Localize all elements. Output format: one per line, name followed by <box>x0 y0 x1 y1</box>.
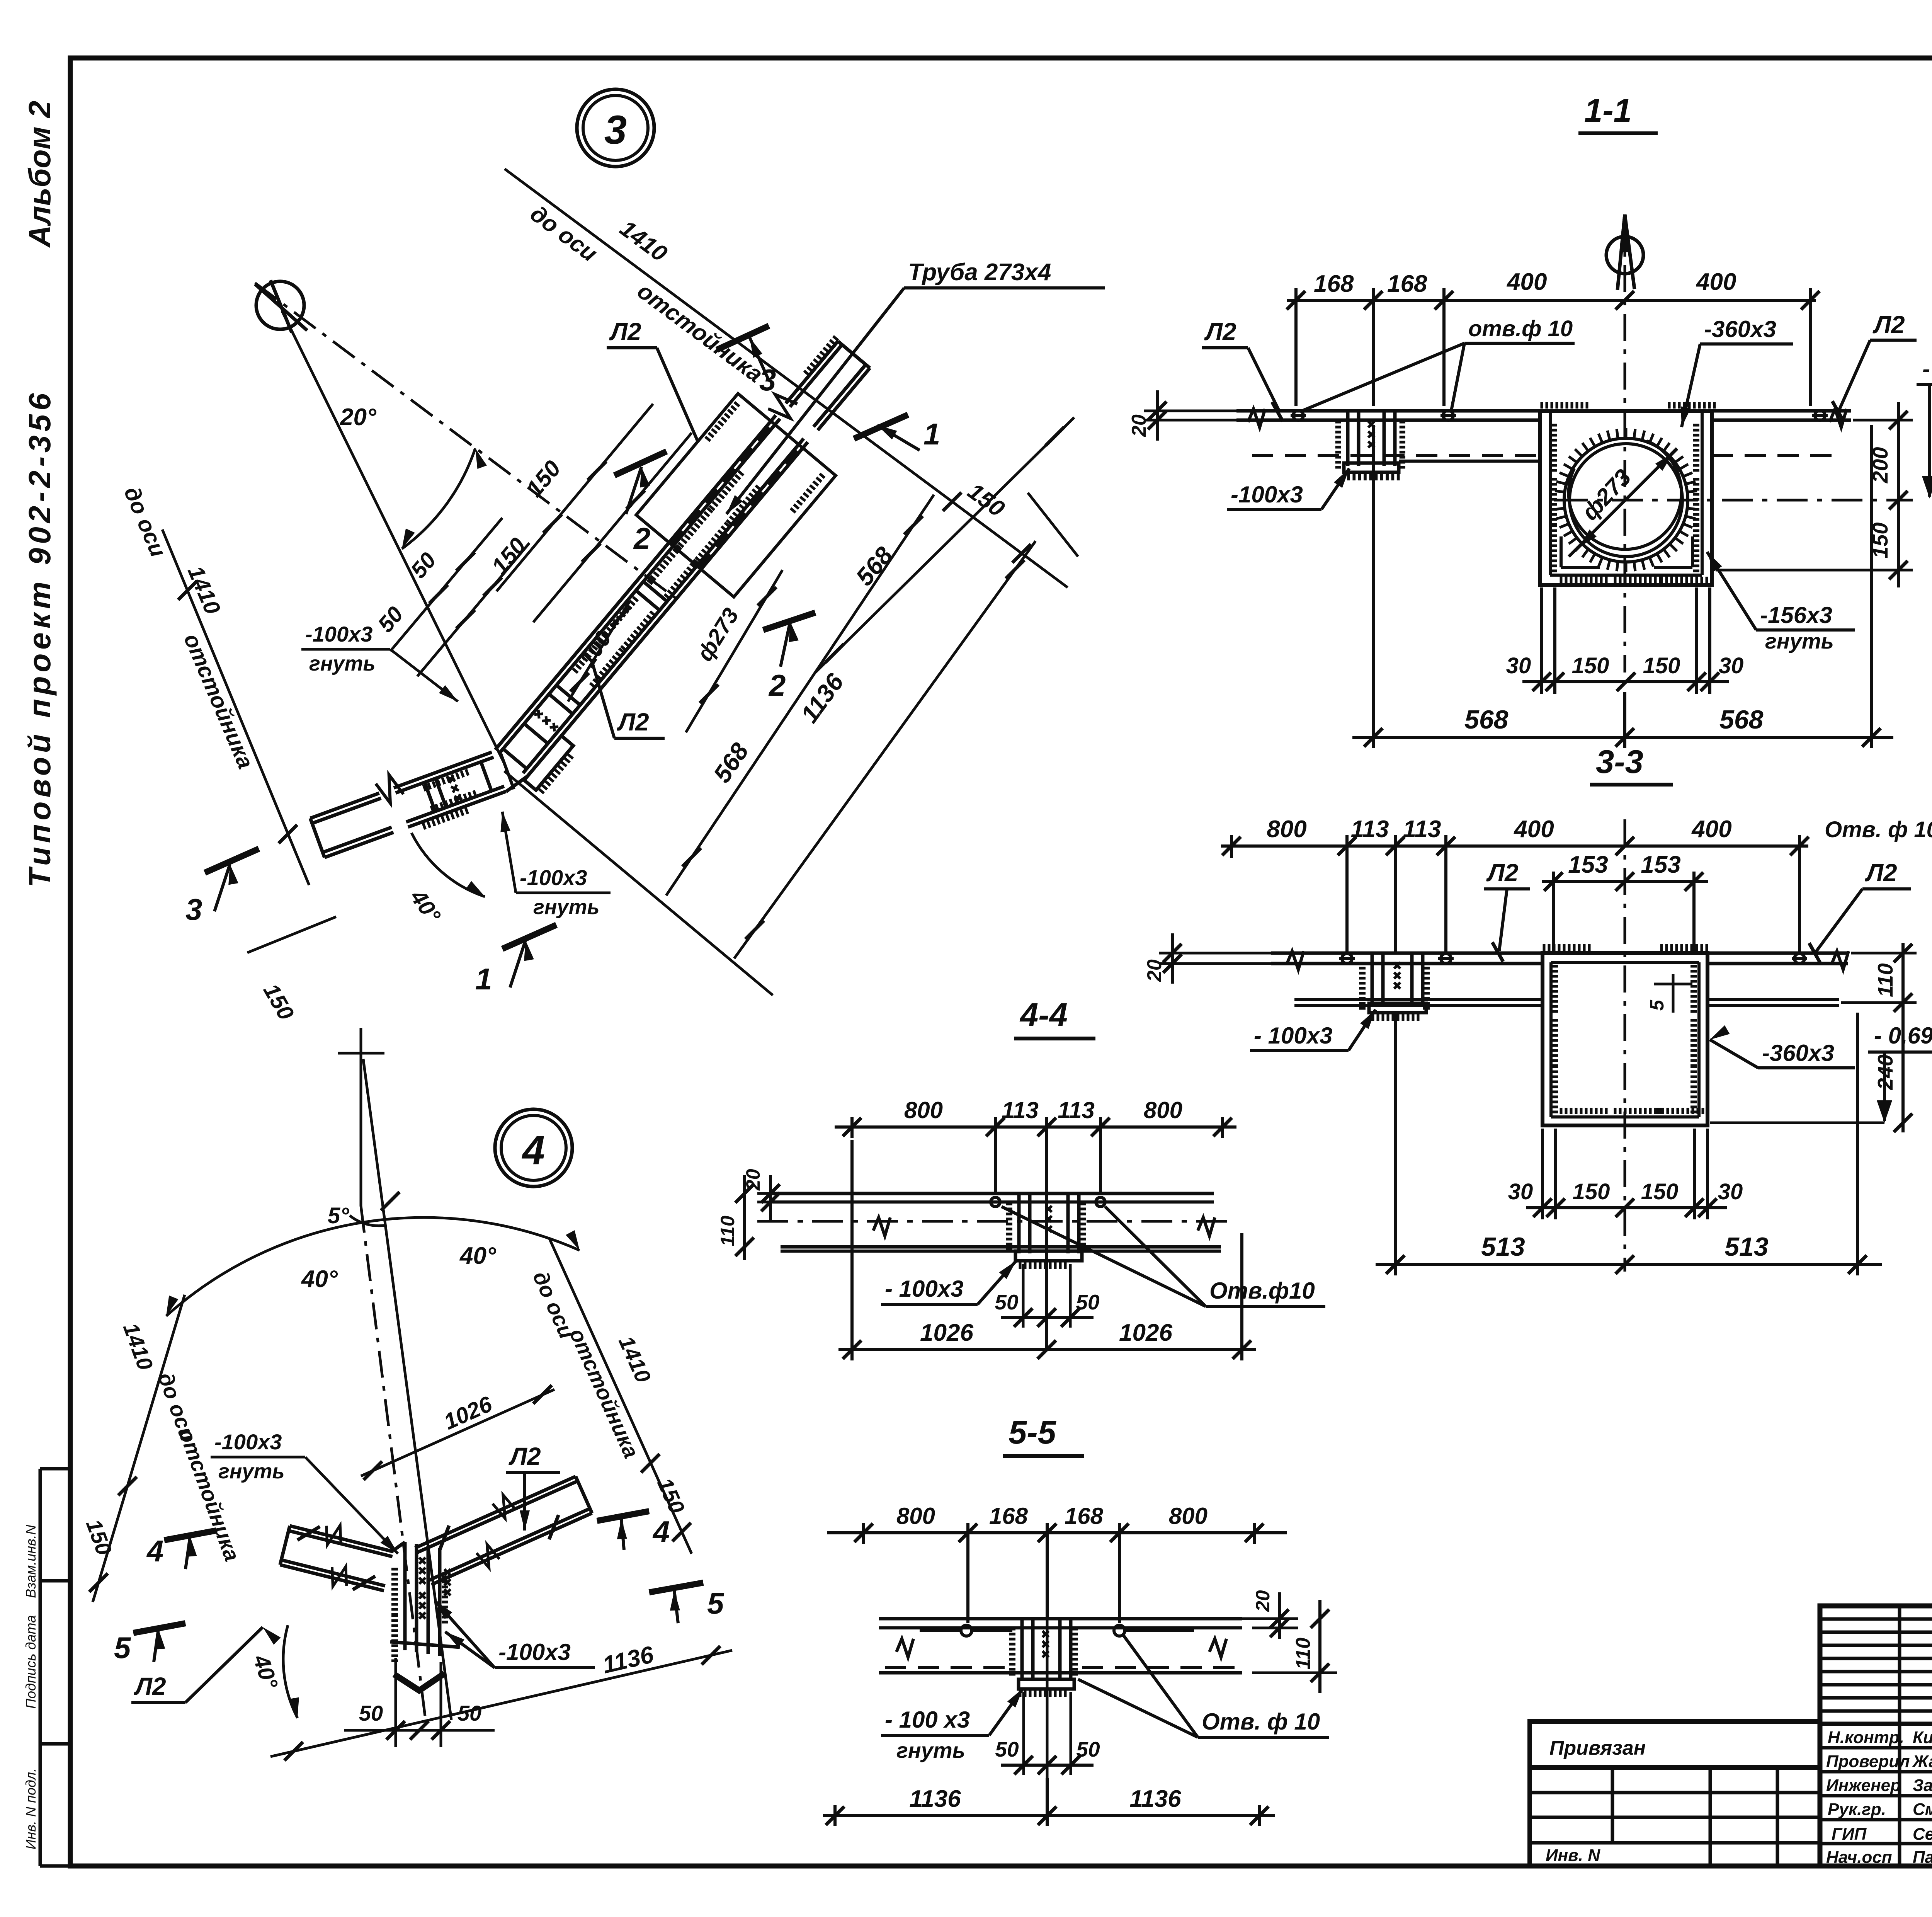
bolt holes filled <box>961 1625 972 1636</box>
dimension line L1: do osi 1410 perpendicular <box>505 169 1068 587</box>
svg-text:- 100х3: - 100х3 <box>1254 1023 1333 1049</box>
svg-text:ГИП: ГИП <box>1832 1825 1867 1844</box>
svg-text:168: 168 <box>1387 271 1427 297</box>
vertex connector <box>390 1542 460 1656</box>
left arm channel <box>278 1514 397 1599</box>
break zigzag <box>765 389 800 424</box>
plate break marks <box>1248 409 1265 427</box>
svg-text:5-5: 5-5 <box>1009 1414 1057 1451</box>
left margin cells column <box>40 1469 70 1866</box>
svg-text:Типовой проект 902-2-356: Типовой проект 902-2-356 <box>22 390 57 887</box>
svg-text:150: 150 <box>1573 1179 1610 1204</box>
svg-text:- 0.540: - 0.540 <box>1922 356 1932 382</box>
dims 50/50 <box>1001 1692 1094 1775</box>
svg-text:1136: 1136 <box>1129 1786 1181 1812</box>
svg-text:Л2: Л2 <box>1872 311 1905 339</box>
svg-text:40°: 40° <box>301 1266 338 1292</box>
svg-text:Инв. N подл.: Инв. N подл. <box>23 1768 39 1849</box>
40deg arc near vertex bottom <box>283 1625 298 1718</box>
svg-text:800: 800 <box>1169 1503 1207 1529</box>
svg-text:4: 4 <box>652 1515 670 1549</box>
line from axis to bend <box>282 311 504 763</box>
svg-text:30: 30 <box>1719 653 1744 678</box>
5 mini dim <box>1672 974 1675 1013</box>
center connector <box>1015 1194 1082 1261</box>
dims 1136/1136 <box>823 1778 1275 1826</box>
svg-text:30: 30 <box>1718 1179 1743 1204</box>
svg-text:568: 568 <box>1719 705 1764 734</box>
combs along rails <box>573 634 607 673</box>
rails double lines <box>495 415 776 750</box>
svg-text:50: 50 <box>995 1737 1019 1761</box>
left connector <box>1369 954 1426 1013</box>
perp extension from bend <box>504 771 773 995</box>
dims 1026/1026 <box>838 1140 1256 1360</box>
svg-text:Инженер: Инженер <box>1826 1776 1901 1795</box>
end hatch <box>804 336 838 375</box>
svg-text:150: 150 <box>1641 1179 1679 1204</box>
svg-text:113: 113 <box>1403 816 1441 843</box>
svg-text:Л2: Л2 <box>1204 318 1236 346</box>
svg-text:Л2: Л2 <box>1865 859 1897 887</box>
svg-text:40°: 40° <box>459 1243 497 1269</box>
top narrow rows (left part) <box>1820 1617 1932 1621</box>
title block outer <box>1820 1606 1932 1866</box>
svg-text:4: 4 <box>522 1128 545 1173</box>
tank axis anchor symbol <box>255 280 307 332</box>
svg-text:Седых: Седых <box>1913 1825 1932 1844</box>
svg-text:Труба 273х4: Труба 273х4 <box>908 259 1051 286</box>
svg-text:Л2: Л2 <box>134 1672 166 1700</box>
svg-text:150: 150 <box>1572 653 1609 678</box>
svg-text:5: 5 <box>114 1631 131 1665</box>
detail circle 4 <box>495 1109 572 1187</box>
upper arm (rotated -50 about bend) <box>462 313 903 804</box>
svg-text:Нач.осп: Нач.осп <box>1826 1848 1892 1867</box>
svg-text:110: 110 <box>1292 1638 1315 1670</box>
plate top line <box>1236 409 1851 413</box>
svg-text:50: 50 <box>995 1290 1019 1314</box>
center box inner walls <box>1550 411 1702 575</box>
section 4 left <box>164 1531 216 1540</box>
radial weld ticks around circle <box>1554 428 1698 572</box>
transverse plate mid <box>636 591 660 610</box>
svg-text:168: 168 <box>1065 1503 1104 1529</box>
lower shelf <box>1294 998 1543 1001</box>
svg-text:113: 113 <box>1058 1097 1095 1123</box>
section mark 1 top right <box>854 415 908 439</box>
svg-text:800: 800 <box>896 1503 935 1529</box>
name rows <box>1820 1746 1932 1750</box>
section mark 2 upper <box>614 451 667 475</box>
svg-text:-100х3: -100х3 <box>305 622 372 646</box>
horizontal centerline <box>1557 499 1913 502</box>
20 dim left <box>757 1175 808 1221</box>
privyazan table <box>1530 1721 1820 1866</box>
svg-text:50: 50 <box>1076 1290 1100 1314</box>
svg-text:150: 150 <box>1643 653 1680 678</box>
top dim row 800/113/113/400/400 <box>1221 835 1808 955</box>
svg-text:20°: 20° <box>340 404 377 431</box>
svg-text:Жанин: Жанин <box>1912 1752 1932 1771</box>
bottom dims 513/513 <box>1376 1013 1882 1275</box>
detail circle 3 <box>577 89 654 167</box>
connector near bend <box>503 749 527 768</box>
svg-text:Пасева: Пасева <box>1913 1848 1932 1867</box>
svg-text:-360х3: -360х3 <box>1762 1040 1834 1066</box>
20 dim left <box>1144 390 1236 441</box>
svg-text:3-3: 3-3 <box>1596 744 1643 780</box>
svg-text:400: 400 <box>1506 269 1547 295</box>
svg-text:-360х3: -360х3 <box>1704 316 1776 342</box>
right arm channel <box>410 1465 595 1592</box>
bolt holes <box>1339 953 1807 964</box>
svg-text:Подпись дата: Подпись дата <box>23 1615 39 1709</box>
svg-text:800: 800 <box>904 1097 943 1123</box>
section 4 right <box>597 1511 649 1521</box>
svg-text:400: 400 <box>1691 816 1731 843</box>
axis dash-dot line 37deg <box>255 283 682 603</box>
pipe <box>636 393 835 597</box>
svg-text:153: 153 <box>1568 851 1608 878</box>
right dims 110/240 <box>1841 943 1917 1132</box>
top dim row 800/113/113/800 <box>835 1117 1236 1349</box>
tank axis symbol <box>1606 215 1643 290</box>
vertical centerline <box>360 1028 362 1206</box>
plate <box>1271 952 1848 955</box>
svg-text:Инв. N: Инв. N <box>1546 1846 1600 1865</box>
dims 50/50 left of bend <box>390 518 529 676</box>
f273 dim across pipe <box>686 570 782 732</box>
long dim fan line middle 1136 <box>734 541 1036 958</box>
box hatching <box>1551 966 1558 1011</box>
50/50 dim below vertex <box>344 1729 495 1732</box>
svg-text:Л2: Л2 <box>1486 859 1519 887</box>
svg-text:568: 568 <box>1464 705 1509 734</box>
svg-text:-156х3: -156х3 <box>1760 602 1832 628</box>
mid centerline <box>757 1220 1236 1223</box>
left connector -100x3 <box>1344 412 1399 472</box>
svg-text:- 100 х3: - 100 х3 <box>885 1707 970 1733</box>
plate <box>772 1192 1214 1195</box>
svg-text:- 100х3: - 100х3 <box>885 1276 964 1302</box>
svg-text:гнуть: гнуть <box>218 1460 285 1483</box>
svg-text:2: 2 <box>768 668 786 702</box>
svg-text:168: 168 <box>1314 271 1354 297</box>
svg-text:гнуть: гнуть <box>896 1738 965 1762</box>
svg-text:400: 400 <box>1513 816 1554 843</box>
section 5 right <box>649 1583 703 1592</box>
svg-text:Отв. ф 10: Отв. ф 10 <box>1202 1709 1320 1735</box>
20 dim left of 3-3 <box>1159 933 1271 984</box>
1136 dim <box>270 1650 732 1757</box>
svg-text:Л2: Л2 <box>509 1442 541 1470</box>
svg-text:Привязан: Привязан <box>1549 1737 1646 1759</box>
pipe circle <box>1564 438 1688 562</box>
svg-text:-100х3: -100х3 <box>1231 482 1303 507</box>
svg-text:50: 50 <box>1076 1737 1100 1761</box>
1410 dim line right <box>549 1239 692 1554</box>
svg-text:513: 513 <box>1481 1232 1525 1262</box>
svg-text:1: 1 <box>475 962 492 996</box>
svg-text:153: 153 <box>1641 851 1680 878</box>
hidden rails in pipe <box>671 423 773 544</box>
svg-text:Зайцев: Зайцев <box>1913 1776 1932 1795</box>
plate <box>879 1617 1242 1621</box>
svg-text:гнуть: гнуть <box>1765 629 1834 653</box>
svg-text:1136: 1136 <box>909 1786 961 1812</box>
bottom dims 30/150/150/30 <box>1526 1129 1727 1219</box>
svg-text:3: 3 <box>604 107 627 153</box>
5deg line <box>363 1059 451 1720</box>
svg-text:Киселев: Киселев <box>1913 1728 1932 1747</box>
svg-text:513: 513 <box>1725 1232 1769 1262</box>
lower shelf solid <box>1399 460 1540 463</box>
svg-text:-100х3: -100х3 <box>498 1639 571 1665</box>
svg-text:1026: 1026 <box>920 1319 973 1346</box>
vertical columns left part <box>1898 1606 1901 1866</box>
center box outer <box>1540 411 1712 585</box>
1026 dim <box>361 1389 554 1476</box>
centerline vertical <box>1624 819 1626 1272</box>
dim 153/153 <box>1542 872 1708 951</box>
svg-text:1-1: 1-1 <box>1584 92 1632 129</box>
svg-text:3: 3 <box>759 363 776 397</box>
svg-text:110: 110 <box>717 1216 738 1246</box>
svg-text:30: 30 <box>1506 653 1531 678</box>
svg-text:400: 400 <box>1696 269 1736 295</box>
long dim fan line left 568 <box>666 495 934 896</box>
svg-text:1: 1 <box>923 417 940 451</box>
svg-text:-100х3: -100х3 <box>214 1430 282 1454</box>
fan arc <box>166 1217 580 1316</box>
150 tick lower left <box>247 917 336 953</box>
svg-text:Смоляков: Смоляков <box>1913 1800 1932 1819</box>
top dim row 800/168/168/800 <box>827 1523 1287 1623</box>
dims 150/150 along arm upper-left <box>497 404 692 622</box>
dims 50/50 <box>1001 1264 1094 1328</box>
svg-text:-100х3: -100х3 <box>520 865 587 890</box>
1410 dim line left <box>93 1295 185 1602</box>
svg-text:20: 20 <box>1252 1590 1274 1612</box>
section mark 1 bottom <box>502 925 556 949</box>
svg-text:Проверил: Проверил <box>1826 1752 1910 1771</box>
bolt holes on plate <box>1291 410 1828 421</box>
svg-text:гнуть: гнуть <box>533 896 600 919</box>
svg-text:Л2: Л2 <box>609 318 641 346</box>
svg-text:отв.ф 10: отв.ф 10 <box>1468 316 1573 341</box>
110 dim left <box>743 1175 746 1260</box>
20/110 dims right <box>1198 1592 1337 1693</box>
svg-text:240: 240 <box>1873 1054 1897 1090</box>
section mark 3 top <box>717 326 769 350</box>
section mark 2 lower right <box>763 613 815 630</box>
vertical centerline <box>1624 216 1626 672</box>
center box <box>1543 953 1708 1125</box>
svg-text:30: 30 <box>1508 1179 1533 1204</box>
center extension through dims <box>1046 1619 1049 1778</box>
box wall hatching <box>1551 425 1557 470</box>
svg-text:Отв. ф 10: Отв. ф 10 <box>1825 817 1932 842</box>
center connector <box>1019 1619 1074 1689</box>
bend joint bridge <box>506 776 527 792</box>
svg-text:Альбом 2: Альбом 2 <box>22 101 57 248</box>
lower arm (rotated +20 about bend) <box>306 739 509 865</box>
svg-text:800: 800 <box>1144 1097 1182 1123</box>
vertex bold mark <box>394 1674 444 1691</box>
bottom dims 30/150/150/30 <box>1522 587 1729 694</box>
svg-text:Отв.ф10: Отв.ф10 <box>1209 1278 1315 1304</box>
bolt holes <box>991 1197 1105 1207</box>
svg-text:Рук.гр.: Рук.гр. <box>1828 1800 1886 1819</box>
svg-text:5: 5 <box>1646 999 1668 1011</box>
svg-text:гнуть: гнуть <box>309 652 376 675</box>
plate bottom lines <box>1236 419 1541 422</box>
svg-text:5: 5 <box>707 1586 724 1620</box>
hidden dashed lower edge <box>1252 454 1540 457</box>
xx marks near bend connector <box>534 710 558 732</box>
svg-text:Н.контр.: Н.контр. <box>1828 1728 1904 1747</box>
svg-text:110: 110 <box>1873 963 1897 997</box>
svg-text:4: 4 <box>146 1534 163 1568</box>
svg-text:20: 20 <box>1143 959 1166 982</box>
svg-text:50: 50 <box>359 1701 383 1725</box>
svg-text:4-4: 4-4 <box>1019 997 1068 1033</box>
svg-text:800: 800 <box>1267 816 1306 843</box>
diameter dimension <box>1569 448 1677 557</box>
right dims 200/150 <box>1716 402 1913 587</box>
lower-left 1410 dims <box>162 529 309 885</box>
svg-text:2: 2 <box>633 521 650 555</box>
svg-text:113: 113 <box>1351 816 1389 843</box>
svg-text:168: 168 <box>989 1503 1028 1529</box>
section 5 left <box>133 1623 185 1633</box>
40deg arc near bend <box>412 833 485 897</box>
bottom dims 568/568 <box>1352 425 1893 748</box>
svg-text:3: 3 <box>185 892 202 926</box>
20deg arc <box>402 448 475 549</box>
svg-text:1026: 1026 <box>1119 1319 1172 1346</box>
bend tab <box>524 736 580 795</box>
section mark 3 bottom left <box>205 849 259 873</box>
svg-text:Взам.инв.N: Взам.инв.N <box>23 1524 39 1598</box>
long dim fan line right 568 <box>815 417 1074 672</box>
svg-text:Л2: Л2 <box>617 708 649 736</box>
top dimension row 168/168/400/400 <box>1287 288 1816 406</box>
svg-text:113: 113 <box>1002 1097 1039 1123</box>
svg-text:20: 20 <box>1128 414 1150 437</box>
